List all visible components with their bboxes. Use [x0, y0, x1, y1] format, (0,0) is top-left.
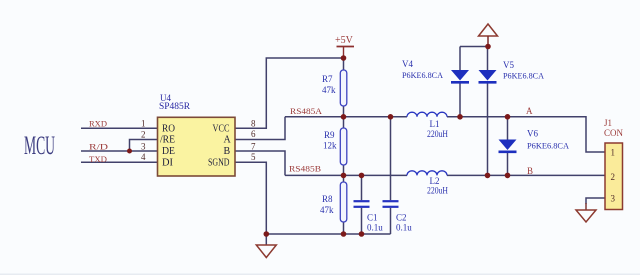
capacitor C2	[383, 201, 413, 232]
svg-text:2: 2	[141, 129, 146, 139]
TVS diode V6	[499, 129, 570, 152]
svg-text:P6KE6.8CA: P6KE6.8CA	[402, 70, 444, 80]
wire C1 stems	[361, 175, 363, 200]
svg-text:220uH: 220uH	[427, 186, 448, 196]
svg-text:SGND: SGND	[208, 157, 230, 168]
ground symbol G2 (at J1)	[576, 210, 596, 222]
svg-text:RS485B: RS485B	[289, 164, 321, 174]
svg-text:47k: 47k	[320, 205, 334, 215]
svg-text:DE: DE	[162, 146, 175, 157]
svg-text:TXD: TXD	[89, 154, 107, 164]
wire V4 branch	[459, 47, 461, 71]
junction C2 on line A	[388, 114, 394, 120]
svg-text:C2: C2	[396, 213, 407, 223]
junction C1 on line B	[359, 173, 365, 179]
svg-text:V4: V4	[402, 59, 413, 69]
wire V6 branch	[507, 117, 509, 140]
svg-text:2: 2	[611, 172, 616, 182]
svg-text:DI: DI	[162, 157, 173, 168]
svg-text:4: 4	[141, 152, 146, 162]
svg-text:L1: L1	[430, 119, 440, 129]
svg-text:0.1u: 0.1u	[396, 222, 412, 232]
svg-text:J1: J1	[604, 118, 612, 128]
svg-text:RO: RO	[162, 124, 175, 135]
IC U4 SP485R body	[158, 93, 236, 176]
svg-text:P6KE6.8CA: P6KE6.8CA	[503, 71, 545, 81]
svg-text:R/D: R/D	[89, 141, 108, 151]
svg-text:A: A	[224, 135, 232, 146]
svg-text:R7: R7	[322, 74, 333, 84]
svg-text:220uH: 220uH	[427, 129, 448, 139]
svg-text:L2: L2	[430, 176, 440, 186]
junction V6 on line B	[505, 173, 511, 179]
svg-text:1: 1	[141, 119, 146, 129]
wire R/D to pin 3	[81, 150, 158, 152]
inductor L1	[407, 112, 448, 139]
wire pin 6 A riser	[235, 117, 285, 140]
svg-text:8: 8	[251, 119, 256, 129]
TVS diode V4	[402, 59, 469, 82]
svg-text:CON: CON	[604, 128, 623, 138]
svg-text:V5: V5	[503, 60, 514, 70]
junction C1 on ground bus	[359, 231, 365, 237]
resistor R7	[322, 70, 347, 106]
svg-text:0.1u: 0.1u	[367, 222, 383, 232]
svg-text:47k: 47k	[322, 85, 336, 95]
earth symbol (up triangle)	[479, 24, 498, 47]
svg-text:/RE: /RE	[160, 135, 175, 146]
svg-text:5: 5	[251, 152, 256, 162]
svg-text:V6: V6	[527, 129, 538, 139]
wire pin 5 SGND down	[235, 162, 266, 234]
connector J1 CON3	[604, 118, 623, 210]
resistor R8	[320, 182, 347, 222]
svg-text:RXD: RXD	[89, 119, 107, 129]
svg-text:+5V: +5V	[335, 35, 354, 46]
capacitor C1	[354, 201, 384, 232]
power symbol +5V	[335, 35, 354, 58]
junction R7/R9 on line A	[341, 114, 347, 120]
svg-text:A: A	[526, 106, 533, 116]
svg-text:1: 1	[611, 148, 616, 158]
wire pin 8 VCC to +5V	[235, 58, 344, 128]
svg-text:SP485R: SP485R	[159, 101, 190, 111]
wire branch R/D to pin 2	[130, 140, 158, 152]
svg-text:C1: C1	[367, 213, 378, 223]
wire ground bus bottom	[266, 233, 390, 235]
junction +5V	[341, 55, 347, 61]
wire net RS485B segment	[285, 174, 407, 176]
wire R7 stubs	[343, 58, 345, 70]
wire net RS485A segment	[285, 116, 407, 118]
resistor R9	[323, 128, 347, 165]
junction R/D	[127, 149, 132, 154]
svg-text:B: B	[224, 146, 231, 157]
wire pin 7 B dropper	[235, 151, 285, 175]
inductor L2	[407, 171, 448, 196]
wire C2 stems	[390, 117, 392, 200]
junction SGND corner	[264, 231, 270, 237]
wire TXD to pin 4	[81, 161, 158, 163]
svg-text:MCU: MCU	[24, 131, 55, 160]
ground symbol G2 stub	[585, 203, 587, 210]
svg-text:R8: R8	[322, 194, 333, 204]
svg-text:6: 6	[251, 129, 256, 139]
junction R8 on ground bus	[341, 231, 347, 237]
wire RXD to pin 1	[81, 127, 158, 129]
svg-text:3: 3	[141, 141, 146, 151]
svg-text:P6KE6.8CA: P6KE6.8CA	[527, 141, 570, 151]
wire SGND ground stub	[265, 234, 267, 245]
junction earth	[485, 44, 491, 50]
junction V4 on line A	[457, 114, 463, 120]
junction V5 on line B	[485, 173, 491, 179]
wire R8 stubs	[343, 175, 345, 182]
svg-text:12k: 12k	[323, 141, 337, 151]
junction V6 on line A	[505, 114, 511, 120]
svg-text:R9: R9	[324, 130, 335, 140]
svg-text:VCC: VCC	[213, 124, 230, 135]
TVS diode V5	[479, 60, 545, 82]
junction R9/R8 on line B	[341, 173, 347, 179]
svg-text:B: B	[527, 166, 533, 176]
wire line B after L2 to J1 pin 2	[447, 174, 605, 176]
wire V5 branch	[487, 47, 489, 71]
svg-text:7: 7	[251, 141, 256, 151]
svg-text:RS485A: RS485A	[290, 106, 323, 116]
wire earth link	[460, 46, 488, 48]
wire R9 stubs	[343, 117, 345, 128]
wire line A after L1 to J1 pin 1	[447, 117, 605, 152]
wire J1 pin 3 to ground	[586, 198, 605, 204]
ground symbol G1 (below SGND)	[256, 245, 276, 258]
svg-text:3: 3	[611, 194, 616, 204]
